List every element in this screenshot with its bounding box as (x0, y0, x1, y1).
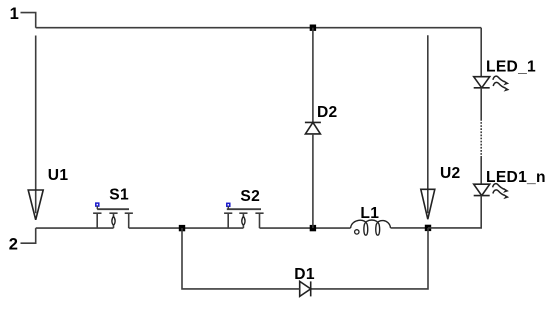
S2 control square (227, 203, 230, 206)
wire LED branch bottom (428, 196, 481, 228)
wire bottom rail segment C (260, 227, 351, 229)
S1 middle post stem (113, 213, 115, 216)
LED LED1_n (474, 184, 490, 195)
wire terminal 1 lead (21, 13, 36, 28)
diode D1 (300, 281, 311, 296)
svg-text:D2: D2 (317, 104, 338, 121)
wire between LEDs upper (480, 88, 482, 119)
S1 left tick (93, 212, 101, 214)
node junction J2 (179, 225, 185, 231)
voltage arrow U1 (28, 190, 43, 220)
S2 control stub (227, 206, 229, 209)
S2 middle arrow drop (242, 216, 245, 225)
LED LED_1 (474, 77, 490, 88)
S2 right tick (255, 212, 263, 214)
svg-text:S2: S2 (240, 188, 260, 205)
D1 triangle (300, 281, 311, 296)
S1 control stub (96, 206, 98, 209)
S2 middle post foot (242, 225, 244, 228)
wire top rail (36, 27, 482, 29)
LED1_n cathode bar (474, 195, 490, 197)
wire bottom rail segment B (129, 227, 244, 229)
LED_1 triangle (474, 77, 490, 88)
S2 left tick (224, 212, 232, 214)
wire LED branch top (480, 28, 482, 77)
S2 left post (227, 213, 229, 228)
wire bottom rail segment A (36, 227, 114, 229)
wire D1 branch left (182, 228, 300, 289)
svg-text:U1: U1 (48, 167, 69, 184)
wire terminal 2 lead (21, 228, 36, 243)
LED1_n light arrow 1 (493, 184, 505, 190)
wire D2 bottom (312, 134, 314, 228)
node junction J4 (425, 225, 431, 231)
voltage arrow U2 (421, 189, 435, 219)
wire D2 top (312, 28, 314, 123)
wire L1 to J4 (391, 227, 429, 229)
LED_1 cathode bar (474, 87, 490, 89)
svg-text:LED_1: LED_1 (486, 58, 536, 75)
svg-text:L1: L1 (360, 205, 379, 222)
S2 gate bar (227, 208, 261, 210)
wire between LEDs lower (480, 156, 482, 184)
S2 right post (259, 213, 261, 228)
diode D2 (305, 122, 321, 133)
S1 gate bar (97, 208, 129, 210)
S1 middle tick (109, 212, 117, 214)
node junction J1 (310, 25, 316, 31)
L1 polarity circle (355, 230, 359, 234)
D2 triangle (305, 122, 320, 133)
LED_1 light arrow 1 (493, 76, 505, 82)
S1 middle arrow drop (112, 216, 115, 225)
wire U2 stem (427, 35, 429, 213)
switch S1 (93, 203, 133, 228)
L1 coil winding (351, 220, 391, 235)
svg-text:S1: S1 (109, 186, 129, 203)
node junction J3 (310, 225, 316, 231)
LED1_n triangle (474, 184, 490, 195)
LED1_n light arrow 2 (493, 190, 505, 196)
switch S2 (224, 203, 264, 228)
svg-text:2: 2 (9, 236, 18, 254)
S1 right post (128, 213, 130, 228)
wire dotted continuation (480, 119, 482, 156)
svg-text:D1: D1 (294, 266, 315, 283)
D2 cathode bar (305, 121, 321, 123)
LED_1 light arrow 2 (493, 82, 505, 88)
S1 right tick (125, 212, 133, 214)
svg-text:1: 1 (10, 5, 19, 23)
svg-text:LED1_n: LED1_n (486, 169, 546, 186)
D1 cathode bar (310, 281, 312, 296)
S1 control square (96, 203, 99, 206)
S2 middle tick (239, 212, 247, 214)
svg-text:U2: U2 (440, 165, 461, 182)
S2 middle post stem (242, 213, 244, 216)
S1 middle post foot (113, 225, 115, 228)
inductor L1 (351, 220, 391, 235)
S1 left post (96, 213, 98, 228)
wire U1 stem (35, 36, 37, 214)
wire D1 branch right (311, 228, 428, 289)
